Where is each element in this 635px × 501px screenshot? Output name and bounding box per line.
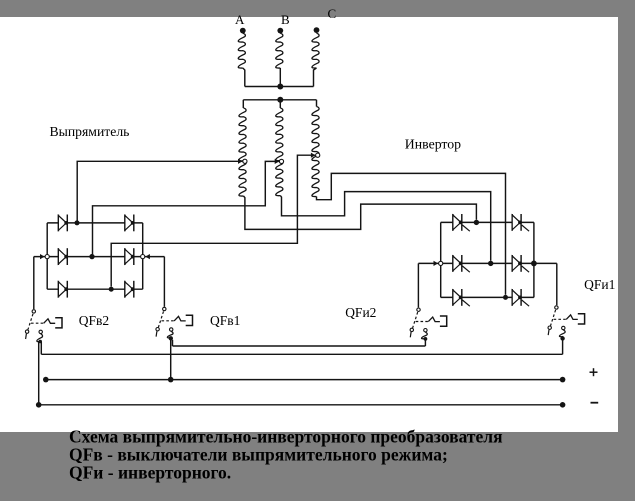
- wire C coil bottom to star bus: [314, 68, 317, 87]
- wire minus bus: [37, 404, 563, 406]
- wire rectifier row2: [34, 256, 165, 258]
- wire inverter right rail: [533, 222, 535, 297]
- junction secondary common point: [277, 97, 283, 103]
- wire coil a2 bottom to inverter row2: [280, 192, 490, 261]
- diode VD6 (row3 right): [125, 281, 135, 298]
- label QFv2: [79, 313, 109, 328]
- wire bus to secondary coil 3 top: [316, 100, 318, 107]
- junction rectifier row2 node: [89, 254, 94, 259]
- terminal dot plus bus right: [560, 377, 566, 383]
- wire inverter row3: [441, 296, 534, 298]
- terminal dot minus bus right: [560, 402, 566, 408]
- caption line 3: [69, 463, 231, 483]
- connector circle rectifier row2 right rail: [141, 255, 145, 259]
- wire secondary common bus: [243, 99, 316, 101]
- wire coil a1 bottom to inverter row1: [244, 196, 477, 229]
- wire inverter row2 right to QFi1: [556, 263, 558, 305]
- thyristor VS1 (row1 left): [453, 214, 470, 231]
- wire rectifier row1: [47, 222, 143, 224]
- svg-text:Схема выпрямительно-инверторно: Схема выпрямительно-инверторного преобра…: [69, 427, 503, 447]
- junction primary star point: [277, 84, 283, 90]
- svg-text:QFи - инверторного.: QFи - инверторного.: [69, 463, 231, 483]
- wire tap a3 to rectifier row3: [111, 155, 315, 286]
- circuit breaker QFv2: [25, 310, 62, 339]
- wire B coil bottom to star point: [279, 68, 281, 87]
- circuit breaker QFv1: [156, 307, 193, 336]
- wire rectifier left rail: [46, 223, 48, 289]
- wire link bus QFv2 to QFi1: [41, 353, 562, 355]
- svg-text:QFв1: QFв1: [210, 313, 240, 328]
- svg-text:Выпрямитель: Выпрямитель: [50, 124, 130, 139]
- junction plus bus QFv1: [168, 377, 174, 383]
- connector circle inverter row2 left rail: [439, 261, 443, 265]
- secondary winding a2 (coil): [276, 108, 283, 196]
- node below QFi2: [424, 337, 428, 341]
- junction inverter row1 node: [474, 220, 479, 225]
- svg-text:A: A: [235, 12, 245, 27]
- terminal dot plus bus left: [43, 377, 49, 383]
- primary winding C (coil): [312, 33, 319, 68]
- label Invertor (inverter): [405, 137, 461, 152]
- diode VD4 (row2 right): [125, 248, 135, 265]
- wire inverter left rail: [440, 222, 442, 297]
- thyristor VS4 (row2 right): [512, 255, 529, 272]
- circuit breaker QFi1: [548, 306, 585, 335]
- connector circle rectifier row2 left rail: [45, 255, 49, 259]
- junction inverter row3 node: [503, 295, 508, 300]
- wire QFi2 down lead: [424, 340, 426, 346]
- label phase C: [328, 6, 337, 21]
- secondary winding a1 (coil): [239, 108, 246, 196]
- terminal dot phase A: [240, 28, 246, 34]
- wire inverter row1: [441, 221, 534, 223]
- arrowhead at tap a3: [311, 153, 316, 158]
- wire rectifier row2 left to QFv2: [33, 257, 35, 309]
- svg-text:Инвертор: Инвертор: [405, 137, 461, 152]
- wire primary star bus: [245, 86, 314, 88]
- wire bus to secondary coil 1 top: [242, 100, 244, 108]
- svg-text:QFв - выключатели выпрямительн: QFв - выключатели выпрямительного режима…: [69, 445, 448, 465]
- thyristor VS3 (row2 left): [453, 255, 470, 272]
- primary winding B (coil): [276, 33, 283, 68]
- wire QFi1 down lead: [562, 340, 564, 355]
- label phase B: [281, 12, 290, 27]
- svg-text:QFи2: QFи2: [345, 305, 376, 320]
- node below QFi1: [560, 336, 564, 340]
- wire inverter row2 left to QFi2: [417, 263, 419, 307]
- wire rectifier row2 right to QFv1: [163, 257, 165, 307]
- wire inverter row2: [418, 262, 556, 264]
- wire QFv1 to link bus: [172, 340, 174, 346]
- flexible lead below QFi1: [559, 330, 565, 337]
- diode VD5 (row3 left): [58, 281, 68, 298]
- label QFi1: [584, 277, 615, 292]
- wire plus bus: [46, 379, 563, 381]
- diode VD2 (row1 right): [125, 215, 135, 232]
- wire QFv2 to minus bus: [38, 342, 40, 405]
- junction rectifier row1 node: [75, 220, 80, 225]
- label QFv1: [210, 313, 240, 328]
- label minus: [591, 402, 599, 404]
- circuit breaker QFi2: [410, 308, 447, 337]
- arrowhead at tap a2: [275, 159, 280, 164]
- wire bus to secondary coil 2 top: [279, 100, 281, 108]
- junction rectifier row3 node: [109, 287, 114, 292]
- diode VD3 (row2 left): [58, 248, 68, 265]
- primary winding A (coil): [238, 33, 245, 68]
- arrowhead into left rail: [40, 254, 45, 259]
- junction inverter row2 right rail: [531, 261, 537, 267]
- arrowhead at tap a1: [238, 159, 243, 164]
- thyristor VS2 (row1 right): [512, 214, 529, 231]
- wire tap a1 to rectifier row1: [77, 161, 242, 220]
- diode VD1 (row1 left): [58, 215, 68, 232]
- tap node a2 (circle): [279, 159, 283, 163]
- wire coil a3 bottom to inverter row3: [317, 173, 506, 294]
- flexible lead below QFv1: [167, 331, 173, 337]
- wire rectifier right rail: [142, 223, 144, 289]
- label phase A: [235, 12, 245, 27]
- flexible lead below QFv2: [37, 334, 43, 342]
- svg-text:QFи1: QFи1: [584, 277, 615, 292]
- wire QFv1 to plus bus: [170, 340, 172, 380]
- tap node a3 (circle): [316, 153, 320, 157]
- terminal dot phase C: [314, 27, 320, 33]
- wire rectifier row3: [47, 288, 143, 290]
- arrowhead into inverter left rail: [434, 261, 439, 266]
- caption line 2: [69, 445, 448, 465]
- label plus: [590, 368, 598, 376]
- caption line 1: [69, 427, 503, 447]
- svg-text:B: B: [281, 12, 290, 27]
- wire A coil bottom to star bus: [243, 68, 245, 87]
- node below QFv1: [169, 336, 173, 340]
- thyristor VS6 (row3 right): [512, 289, 529, 306]
- terminal dot phase B: [277, 28, 283, 34]
- svg-text:C: C: [328, 6, 337, 21]
- svg-text:QFв2: QFв2: [79, 313, 109, 328]
- node below QFv2: [38, 340, 42, 344]
- label QFi2: [345, 305, 376, 320]
- secondary winding a3 (coil): [312, 107, 319, 197]
- junction minus bus QFv2: [36, 402, 42, 408]
- junction inverter row2 node: [488, 261, 493, 266]
- wire tap a2 to rectifier row2: [93, 161, 279, 254]
- label Vypryamitel (rectifier): [50, 124, 130, 139]
- wire link bus QFv1 to QFi2: [173, 345, 426, 347]
- wire QFv2 to link bus: [40, 342, 42, 354]
- thyristor VS5 (row3 left): [453, 289, 470, 306]
- arrowhead into right rail: [145, 254, 150, 259]
- flexible lead below QFi2: [422, 332, 428, 339]
- tap node a1 (circle): [243, 159, 247, 163]
